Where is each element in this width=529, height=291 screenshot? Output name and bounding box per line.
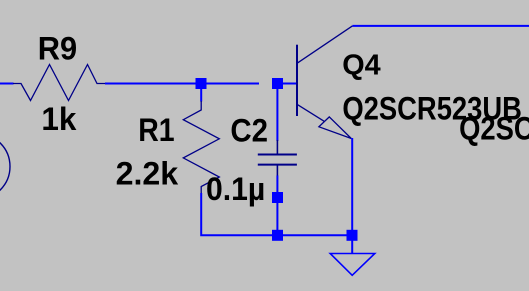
svg-text:Q4: Q4 xyxy=(342,50,380,82)
wire: node E to ground xyxy=(351,240,353,254)
wire: node A down to R1 xyxy=(200,89,202,102)
transistor Q4 base bar xyxy=(296,45,298,116)
wire: collector to right edge xyxy=(352,25,529,27)
ground xyxy=(330,254,375,276)
wire: R9 to node A xyxy=(105,83,259,85)
svg-text:0.1µ: 0.1µ xyxy=(206,171,265,207)
svg-text:2.2k: 2.2k xyxy=(116,155,179,191)
junction node D (bottom rail) xyxy=(272,230,283,241)
transistor Q4 emitter arrow xyxy=(319,117,351,139)
svg-text:R9: R9 xyxy=(38,30,77,66)
wire: node B down to C2 xyxy=(276,89,278,142)
junction node C xyxy=(272,192,283,203)
junction node A (R9/R1) xyxy=(196,78,207,89)
transistor Q? (partial circle at left edge) xyxy=(0,134,10,200)
svg-text:Q2SCR523UB: Q2SCR523UB xyxy=(459,111,529,147)
junction node B (C2 top / base) xyxy=(272,78,283,89)
svg-text:C2: C2 xyxy=(230,113,268,149)
svg-text:R1: R1 xyxy=(138,112,174,148)
resistor R9 xyxy=(13,65,105,101)
transistor Q4 collector lead xyxy=(297,26,352,63)
resistor R1 xyxy=(183,101,219,194)
junction node E (emitter / ground) xyxy=(347,230,358,241)
wire: bottom rail node D to node E xyxy=(283,234,352,236)
wire: left feed into R9 xyxy=(0,83,14,85)
svg-text:1k: 1k xyxy=(41,101,76,137)
wire: node B to Q4 base xyxy=(283,83,297,85)
wire: C2 bottom to node C xyxy=(276,176,278,193)
wire: node C to node D xyxy=(276,203,278,230)
transistor Q4 emitter lead xyxy=(297,104,324,121)
wire: R1 bottom to bottom rail xyxy=(201,193,277,235)
capacitor C2 xyxy=(258,140,297,176)
wire: emitter down to node E xyxy=(351,138,353,235)
